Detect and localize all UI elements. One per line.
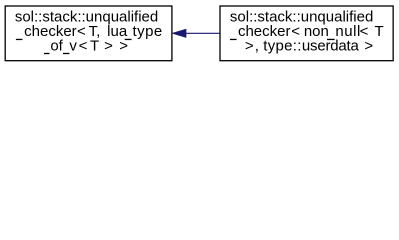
svg-text:v: v bbox=[69, 37, 77, 54]
svg-text:T: T bbox=[374, 23, 383, 40]
node: base class box sol::stack::unqualified_checker< T, lua_type_of_v< T > > bbox=[5, 6, 172, 61]
node B text line 2 bbox=[230, 39, 237, 40]
svg-text:>: > bbox=[104, 37, 113, 54]
svg-text:>: > bbox=[119, 37, 128, 54]
svg-text:>: > bbox=[364, 37, 373, 54]
wire: inheritance arrowhead bbox=[173, 30, 186, 38]
node: derived class box sol::stack::unqualified_checker< non_null< T >, type::userdata > bbox=[220, 6, 393, 61]
svg-text:of: of bbox=[50, 37, 63, 54]
svg-text:userdata: userdata bbox=[302, 37, 360, 54]
node A text line 2 bbox=[16, 39, 23, 40]
svg-text:T: T bbox=[90, 37, 99, 54]
wire: inheritance arrow shaft bbox=[186, 32, 220, 34]
svg-text:<: < bbox=[79, 37, 88, 54]
svg-text:type: type bbox=[133, 23, 163, 40]
svg-text:,: , bbox=[255, 37, 259, 54]
node A text line 3 bbox=[44, 53, 50, 54]
svg-text:type::: type:: bbox=[263, 37, 301, 54]
svg-text:>: > bbox=[245, 37, 254, 54]
